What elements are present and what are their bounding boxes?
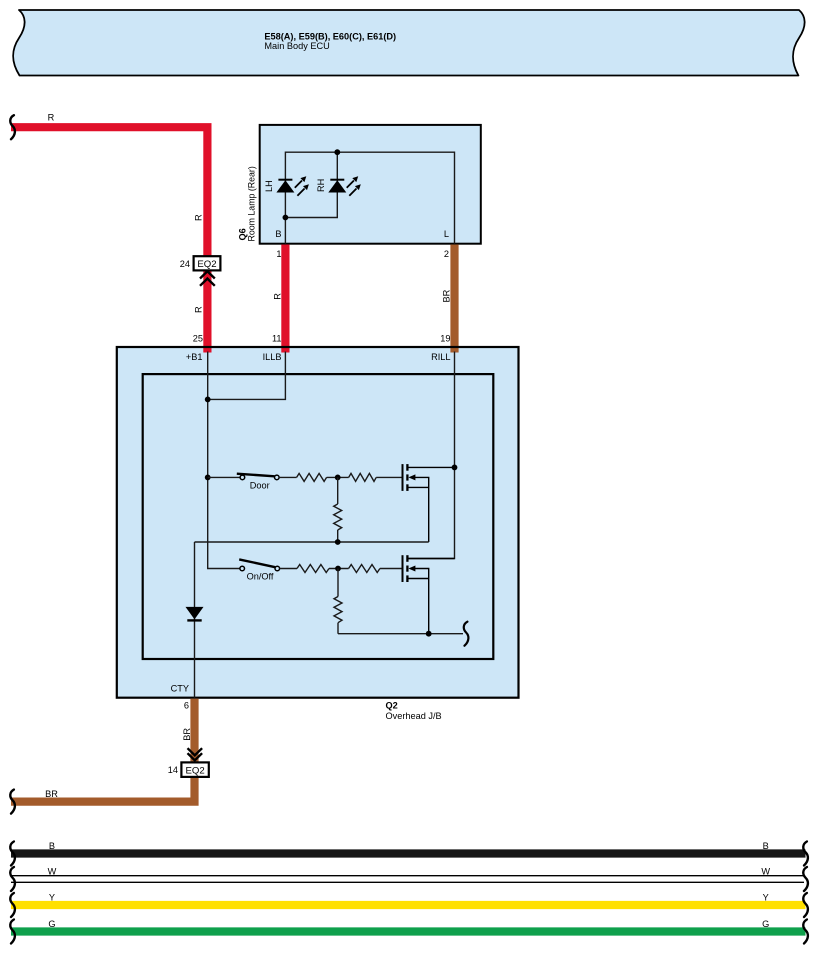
svg-text:24: 24 bbox=[180, 259, 190, 269]
transistor Q-upper (MOSFET) bbox=[403, 464, 455, 542]
svg-text:R: R bbox=[48, 113, 55, 123]
node dot on/off row divider bbox=[335, 566, 341, 572]
connector arrows (lower EQ2, pointing down) bbox=[188, 748, 203, 760]
wire Y (yellow) bbox=[11, 901, 806, 909]
svg-text:G: G bbox=[48, 919, 55, 929]
break squiggle Y right bbox=[803, 893, 808, 917]
svg-text:R: R bbox=[194, 306, 204, 313]
node dot upper drain on RILL bbox=[452, 465, 458, 471]
node dot mid rail / pull-down bbox=[335, 539, 341, 545]
Overhead J/B box Q2 (fill) bbox=[117, 347, 519, 698]
break squiggle G right bbox=[803, 920, 808, 944]
LED LH bbox=[276, 176, 309, 196]
wire break squiggle (left end of brown wire) bbox=[10, 790, 15, 814]
svg-text:B: B bbox=[49, 841, 55, 851]
wire W (white) bbox=[11, 876, 804, 883]
connector EQ2 (upper) bbox=[194, 256, 221, 270]
wire RH branch vertical bbox=[285, 152, 337, 217]
node junction dot (top, RH tap) bbox=[334, 149, 340, 155]
wire CTY vertical bbox=[194, 542, 196, 698]
svg-text:R: R bbox=[194, 214, 204, 221]
svg-text:BR: BR bbox=[45, 789, 58, 799]
resistor R6 (vertical, on/off pull-down) bbox=[337, 569, 339, 634]
svg-text:RH: RH bbox=[316, 179, 326, 192]
Overhead J/B box Q2 (border) bbox=[117, 347, 519, 698]
break squiggle B left bbox=[10, 842, 15, 866]
node dot door-row tap on +B1 bbox=[205, 475, 211, 481]
wire BR (Q6 pin 2 L to Q2 pin 19 RILL, brown) bbox=[450, 245, 458, 353]
wire bottom rail bbox=[338, 633, 463, 635]
svg-text:Y: Y bbox=[763, 893, 769, 903]
svg-text:RILL: RILL bbox=[431, 352, 450, 362]
wire RILL internal vertical bbox=[407, 352, 454, 559]
switch On/Off bbox=[239, 559, 279, 570]
svg-text:Overhead J/B: Overhead J/B bbox=[386, 711, 442, 721]
LED RH bbox=[328, 176, 361, 196]
break squiggle W left bbox=[10, 867, 15, 891]
svg-text:ILLB: ILLB bbox=[263, 352, 282, 362]
wire B (black) bbox=[11, 849, 806, 857]
diode D1 (CTY) bbox=[186, 607, 204, 621]
svg-text:BR: BR bbox=[182, 728, 192, 741]
svg-text:Q2: Q2 bbox=[386, 701, 398, 711]
resistor R2 (door row) bbox=[349, 473, 377, 481]
wire R5 to gate bbox=[380, 568, 403, 570]
svg-text:B: B bbox=[763, 841, 769, 851]
svg-text:BR: BR bbox=[442, 289, 452, 302]
svg-text:B: B bbox=[275, 229, 281, 239]
svg-text:19: 19 bbox=[440, 333, 450, 343]
Room Lamp (Rear) box Q6 bbox=[260, 125, 481, 244]
break squiggle Y left bbox=[10, 893, 15, 917]
svg-text:LH: LH bbox=[264, 180, 274, 192]
svg-text:6: 6 bbox=[184, 700, 189, 710]
wire switch to R4 bbox=[280, 568, 297, 570]
svg-text:EQ2: EQ2 bbox=[197, 259, 216, 270]
wire BR (CTY pin 6, brown) bbox=[11, 699, 195, 802]
wire door row left segment bbox=[208, 476, 240, 478]
svg-text:EQ2: EQ2 bbox=[185, 765, 204, 776]
svg-text:W: W bbox=[48, 867, 57, 877]
svg-text:25: 25 bbox=[193, 333, 203, 343]
svg-text:W: W bbox=[761, 867, 770, 877]
resistor R5 (on/off row) bbox=[349, 565, 380, 573]
svg-text:+B1: +B1 bbox=[186, 352, 203, 362]
wire switch to R1 bbox=[279, 476, 297, 478]
resistor R4 (on/off row) bbox=[297, 565, 329, 573]
svg-text:Y: Y bbox=[49, 893, 55, 903]
svg-text:14: 14 bbox=[168, 765, 178, 775]
svg-text:1: 1 bbox=[276, 249, 281, 259]
svg-text:R: R bbox=[272, 293, 282, 300]
svg-text:On/Off: On/Off bbox=[247, 572, 274, 582]
wire break squiggle (left end of red wire) bbox=[10, 115, 15, 139]
connector EQ2 (lower) bbox=[181, 762, 208, 777]
switch Door bbox=[237, 474, 279, 480]
svg-text:L: L bbox=[444, 229, 449, 239]
wire ILLB internal bbox=[208, 352, 286, 400]
svg-text:Door: Door bbox=[250, 481, 270, 491]
wire R4 to node bbox=[329, 568, 349, 570]
node junction dot (bottom, LH wire) bbox=[283, 215, 289, 221]
break squiggle (bottom rail) bbox=[464, 622, 469, 646]
resistor R1 (door row) bbox=[297, 473, 327, 481]
Q2 inner circuit box bbox=[143, 374, 494, 659]
wire G (green) bbox=[11, 927, 806, 935]
svg-text:Main Body ECU: Main Body ECU bbox=[264, 41, 329, 51]
wire R2 to gate bbox=[376, 476, 402, 478]
wire +B1 vertical bbox=[208, 352, 240, 569]
wire mid rail bbox=[195, 541, 429, 543]
break squiggle W right bbox=[803, 867, 808, 891]
wire R from Main Body ECU (red) bbox=[11, 127, 207, 352]
connector arrows (upper EQ2, pointing up) bbox=[200, 271, 215, 286]
break squiggle G left bbox=[10, 920, 15, 944]
wire room lamp internal top rail bbox=[285, 152, 454, 244]
wire R1 to node bbox=[327, 476, 349, 478]
node dot bottom rail bbox=[426, 631, 432, 637]
svg-text:Room Lamp (Rear): Room Lamp (Rear) bbox=[247, 166, 257, 241]
node dot door row divider bbox=[335, 475, 341, 481]
svg-text:11: 11 bbox=[272, 333, 282, 343]
wire R (Q6 pin 1 B to Q2 pin 11 ILLB, red) bbox=[281, 245, 289, 353]
svg-text:G: G bbox=[762, 919, 769, 929]
svg-text:CTY: CTY bbox=[171, 684, 189, 694]
Main Body ECU banner bbox=[13, 10, 805, 76]
transistor Q-lower (MOSFET) bbox=[403, 555, 455, 634]
svg-text:2: 2 bbox=[444, 249, 449, 259]
node dot ILLB/+B1 junction bbox=[205, 397, 211, 403]
break squiggle B right bbox=[803, 842, 808, 866]
resistor R3 (vertical, door row pull-down) bbox=[337, 477, 339, 542]
